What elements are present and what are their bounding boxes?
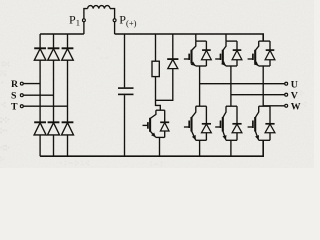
wire reactor to P+ (110, 9, 115, 34)
wire output W (263, 105, 284, 107)
capacitor C plates (118, 88, 134, 94)
wire R phase lead (23, 83, 40, 85)
wire capacitor top lead (124, 34, 126, 87)
wire top bus right (P+ to inverter) (115, 34, 264, 41)
wire P1 riser (84, 9, 88, 34)
transistor Q4 (lower IGBT leg 1 with diode) (184, 106, 211, 156)
terminal R circle (20, 82, 23, 85)
wire T phase lead (23, 105, 67, 107)
diode D5 (lower rectifier) (48, 122, 60, 135)
terminal W circle (285, 104, 288, 107)
transistor Q7 (brake chopper IGBT with diode) (143, 110, 170, 156)
terminal V circle (285, 93, 288, 96)
wire S phase lead (23, 94, 53, 96)
diode D7 (freewheel across brake resistor) (167, 59, 178, 69)
wire resistor top lead (155, 34, 157, 61)
terminal P(+) circle (113, 19, 116, 22)
wire freewheel diode top lead (172, 34, 174, 59)
diode D1 (upper rectifier) (34, 48, 46, 60)
terminal T circle (20, 105, 23, 108)
transistor Q3 (upper IGBT leg 3 with diode) (248, 41, 275, 106)
diode D3 (upper rectifier) (62, 48, 74, 60)
diode D2 (upper rectifier) (48, 48, 60, 60)
wire output V (231, 94, 285, 96)
transistor Q5 (lower IGBT leg 2 with diode) (215, 106, 242, 156)
resistor R (braking) (152, 61, 159, 76)
wire output U (200, 83, 285, 85)
inductor L (DC reactor) (88, 6, 110, 9)
wire rectifier leg 3 (67, 34, 69, 156)
wire rectifier leg 2 (53, 34, 55, 156)
wire capacitor bottom lead (124, 95, 126, 156)
terminal P1 circle (82, 19, 85, 22)
transistor Q1 (upper IGBT leg 1 with diode) (184, 34, 211, 106)
transistor Q2 (upper IGBT leg 2 with diode) (215, 34, 242, 106)
terminal U circle (285, 82, 288, 85)
terminal S circle (20, 94, 23, 97)
transistor Q6 (lower IGBT leg 3 with diode) (248, 106, 275, 140)
diode D6 (lower rectifier) (62, 122, 74, 135)
diode D4 (lower rectifier) (34, 122, 46, 135)
wire rectifier leg 1 (39, 34, 41, 156)
wire bottom bus (negative) (40, 140, 263, 156)
wire top bus left (P1 side) (40, 33, 84, 35)
wire resistor bottom lead (156, 77, 161, 111)
wire freewheel diode bottom lead (156, 69, 173, 101)
